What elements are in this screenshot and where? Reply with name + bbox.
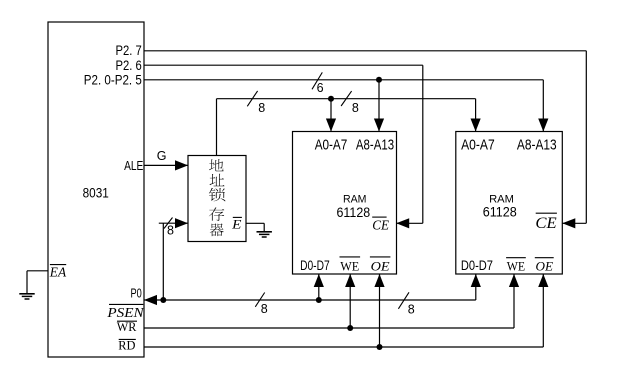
- svg-text:8: 8: [167, 224, 174, 238]
- svg-text:61128: 61128: [483, 204, 517, 220]
- svg-text:P0: P0: [131, 285, 142, 300]
- svg-text:WE: WE: [507, 258, 525, 273]
- svg-text:A8-A13: A8-A13: [356, 137, 394, 154]
- svg-text:8: 8: [352, 101, 359, 115]
- svg-text:ALE: ALE: [124, 158, 143, 173]
- svg-text:OE: OE: [536, 258, 554, 273]
- svg-text:8: 8: [408, 302, 415, 316]
- svg-text:OE: OE: [371, 259, 390, 274]
- svg-text:RD: RD: [118, 338, 135, 353]
- svg-text:8: 8: [258, 101, 265, 115]
- svg-text:E: E: [231, 216, 242, 231]
- svg-text:WE: WE: [340, 259, 359, 274]
- svg-text:P2. 6: P2. 6: [116, 58, 142, 73]
- svg-text:P2. 7: P2. 7: [116, 43, 142, 58]
- svg-text:CE: CE: [535, 215, 557, 232]
- svg-text:6: 6: [317, 81, 324, 95]
- svg-text:A8-A13: A8-A13: [517, 137, 557, 154]
- svg-text:A0-A7: A0-A7: [315, 137, 348, 154]
- svg-text:8031: 8031: [83, 185, 109, 200]
- svg-text:8: 8: [261, 302, 268, 316]
- svg-text:G: G: [157, 149, 167, 163]
- svg-text:PSEN: PSEN: [106, 305, 144, 320]
- svg-text:A0-A7: A0-A7: [461, 137, 495, 154]
- svg-text:EA: EA: [49, 264, 67, 279]
- svg-text:D0-D7: D0-D7: [461, 257, 493, 273]
- svg-text:D0-D7: D0-D7: [300, 257, 330, 273]
- svg-text:61128: 61128: [337, 204, 371, 220]
- svg-text:CE: CE: [372, 218, 390, 233]
- svg-text:P2. 0-P2. 5: P2. 0-P2. 5: [84, 73, 142, 88]
